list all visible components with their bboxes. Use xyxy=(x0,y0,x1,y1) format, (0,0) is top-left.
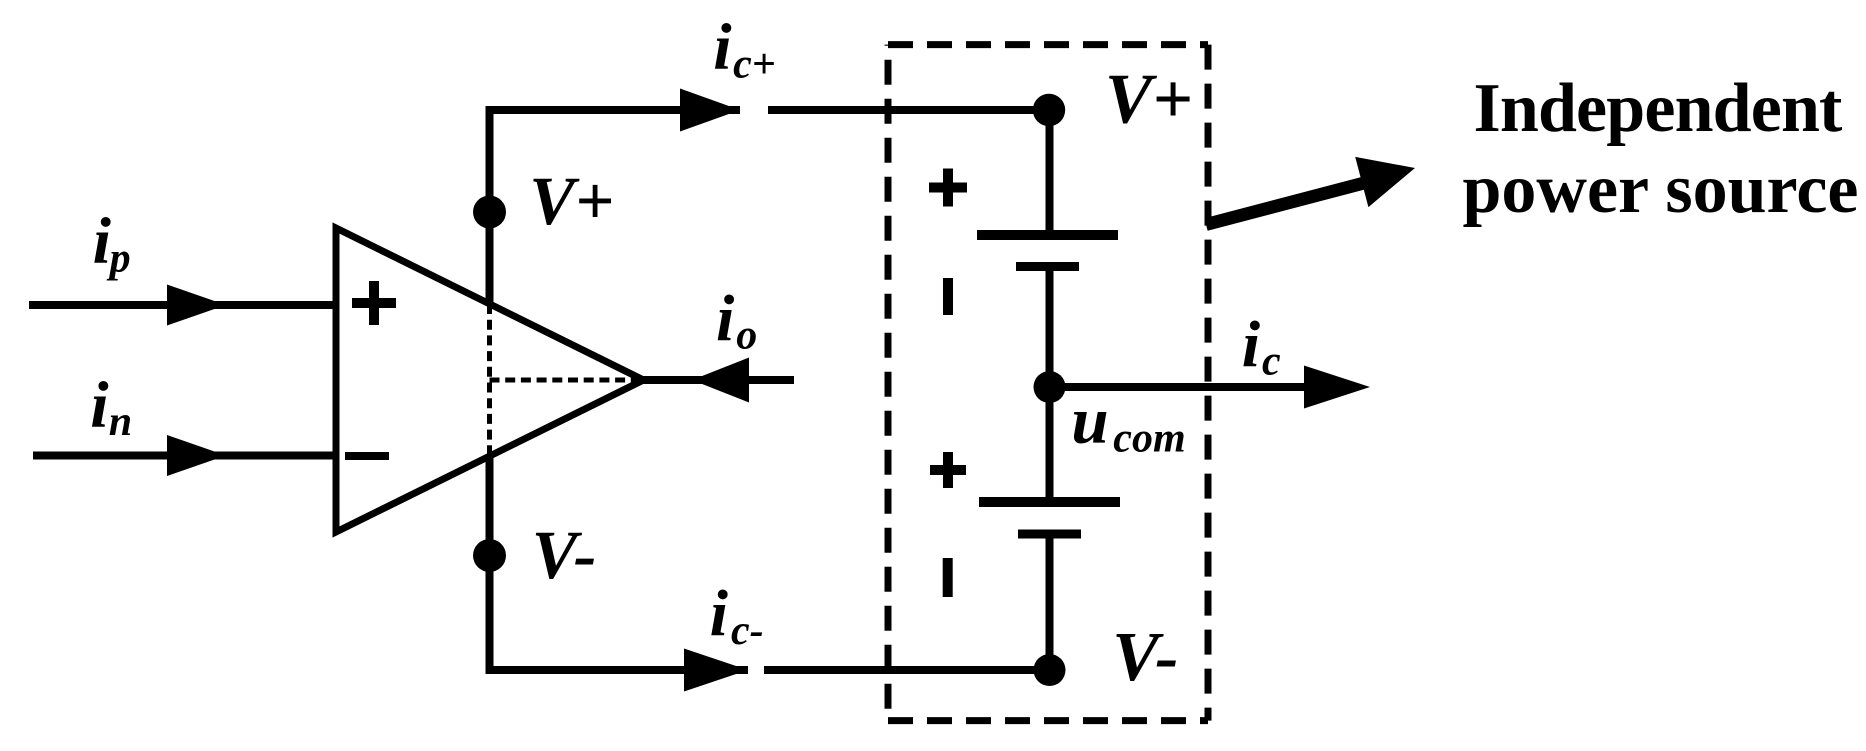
dashed box bottom edge xyxy=(888,717,1208,724)
arrowhead ic+ xyxy=(680,89,740,132)
wire battery B1 to ucom node xyxy=(1046,267,1054,388)
dotted line horizontal to apex xyxy=(490,378,644,383)
svg-text:ic+: ic+ xyxy=(713,11,775,88)
op-amp plus input sign xyxy=(352,281,396,325)
wire ucom node to battery B2 xyxy=(1046,387,1054,502)
dotted line vertical inside op-amp xyxy=(487,304,492,456)
svg-text:power source: power source xyxy=(1463,151,1859,228)
battery B2 short plate xyxy=(1018,530,1081,539)
annotation arrow thick xyxy=(1206,183,1366,225)
battery B2 plus sign xyxy=(930,452,966,488)
svg-text:V+: V+ xyxy=(529,163,614,239)
svg-text:ucom: ucom xyxy=(1071,384,1185,462)
wire battery top V+ to plate xyxy=(1046,110,1054,235)
dashed box left edge xyxy=(885,45,892,709)
wire ic+ to power source xyxy=(768,106,1050,114)
node V+ battery dot xyxy=(1033,94,1065,126)
dashed box independent power source top edge xyxy=(888,41,1208,48)
node V- op-amp dot xyxy=(473,539,506,572)
wire op-amp V+ supply xyxy=(490,110,741,304)
arrowhead on ip wire xyxy=(167,285,226,326)
svg-text:V-: V- xyxy=(1112,619,1178,696)
wire ip input xyxy=(29,301,336,309)
arrowhead io pointing left xyxy=(692,358,749,403)
svg-text:V-: V- xyxy=(532,517,597,593)
wire ic output xyxy=(1050,383,1321,391)
svg-text:V+: V+ xyxy=(1105,61,1193,139)
wire io output xyxy=(644,376,795,384)
op-amp minus input sign xyxy=(345,452,389,460)
wire op-amp V- supply xyxy=(490,456,749,670)
battery B1 short plate xyxy=(1016,262,1079,271)
battery B2 long plate xyxy=(979,497,1120,507)
arrowhead ic- xyxy=(684,649,748,692)
battery B2 minus bar xyxy=(943,558,953,597)
svg-text:ic: ic xyxy=(1242,308,1281,385)
svg-text:io: io xyxy=(716,282,757,359)
wire battery B2 to V- node xyxy=(1046,534,1054,670)
svg-text:in: in xyxy=(90,369,132,446)
svg-text:ic-: ic- xyxy=(710,577,764,654)
op-amp U1 triangle xyxy=(336,228,644,532)
dashed box right edge xyxy=(1205,45,1212,721)
svg-text:Independent: Independent xyxy=(1474,70,1843,147)
node V+ op-amp dot xyxy=(473,196,506,229)
wire ic- to power source xyxy=(764,666,1050,674)
arrowhead ic xyxy=(1304,366,1370,409)
wire in input xyxy=(33,452,336,460)
battery B1 plus sign xyxy=(929,169,967,207)
arrowhead on in wire xyxy=(167,435,226,476)
node V- battery dot xyxy=(1034,654,1066,686)
svg-text:ip: ip xyxy=(93,204,131,281)
annotation arrowhead xyxy=(1355,157,1415,207)
node ucom dot xyxy=(1034,371,1066,403)
battery B1 minus bar xyxy=(943,278,953,315)
battery B1 long plate xyxy=(977,230,1118,240)
